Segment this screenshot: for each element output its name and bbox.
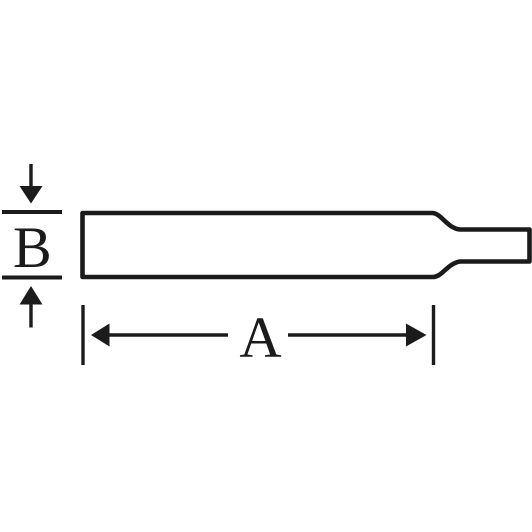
file body outline bbox=[83, 213, 530, 277]
A right extension line bbox=[432, 305, 435, 365]
svg-text:A: A bbox=[239, 305, 281, 370]
B up arrow shaft bbox=[29, 304, 32, 328]
B dimension bottom tick bbox=[2, 276, 62, 280]
A right arrowhead bbox=[406, 324, 427, 347]
A left extension line bbox=[81, 305, 84, 365]
svg-text:B: B bbox=[13, 215, 52, 280]
B down arrowhead bbox=[20, 186, 43, 204]
B up arrowhead bbox=[20, 286, 43, 305]
A right shaft bbox=[288, 333, 407, 336]
B down arrow shaft bbox=[29, 164, 32, 188]
A left arrowhead bbox=[91, 324, 110, 347]
A left shaft bbox=[109, 333, 228, 336]
B dimension top tick bbox=[2, 210, 62, 214]
